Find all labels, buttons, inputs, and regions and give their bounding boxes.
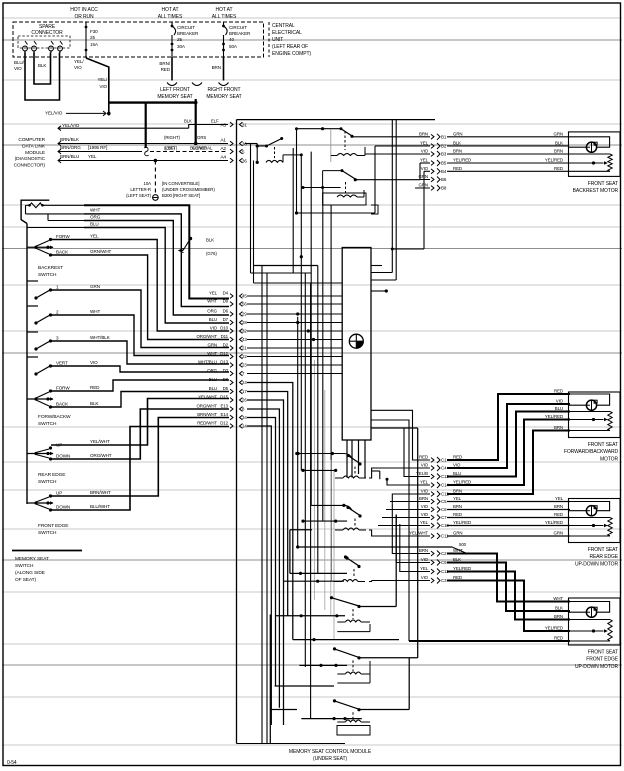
svg-text:BLK: BLK bbox=[555, 141, 563, 146]
switch pair UP/DOWN bbox=[27, 453, 53, 455]
svg-text:HOT IN ACC: HOT IN ACC bbox=[70, 7, 98, 13]
svg-text:MEMORY SEAT: MEMORY SEAT bbox=[206, 94, 241, 100]
bottom relay contact bbox=[330, 596, 333, 599]
svg-text:VIO: VIO bbox=[421, 463, 429, 468]
svg-text:FORW: FORW bbox=[56, 234, 70, 239]
svg-text:YEL: YEL bbox=[420, 480, 429, 485]
svg-text:YEL/VIO: YEL/VIO bbox=[45, 111, 63, 116]
svg-text:28: 28 bbox=[242, 320, 247, 325]
wire cascade rows down to bottom relays bbox=[247, 383, 293, 640]
svg-text:YEL/WHT: YEL/WHT bbox=[409, 531, 428, 536]
svg-text:D6: D6 bbox=[223, 309, 229, 314]
svg-text:D3: D3 bbox=[223, 368, 229, 373]
motor symbol bbox=[586, 506, 596, 516]
wire BRN breaker to right seat bbox=[223, 57, 225, 81]
svg-text:17: 17 bbox=[242, 389, 247, 394]
svg-text:MODULE: MODULE bbox=[25, 150, 45, 156]
central electrical unit dashed box bbox=[13, 22, 264, 57]
svg-text:YEL/RED: YEL/RED bbox=[545, 520, 563, 525]
svg-text:GRN: GRN bbox=[90, 284, 100, 289]
svg-text:B200 [RIGHT SEAT]: B200 [RIGHT SEAT] bbox=[162, 193, 200, 198]
svg-text:(ALONG SIDE: (ALONG SIDE bbox=[15, 570, 45, 576]
svg-text:BLU: BLU bbox=[555, 406, 563, 411]
10A circuit breaker dashed drop bbox=[154, 161, 156, 194]
svg-text:B5: B5 bbox=[441, 161, 447, 166]
switch pair FORW/BACK bbox=[27, 398, 53, 400]
wire right-side vertical 417.7 bbox=[417, 428, 419, 658]
svg-text:C4: C4 bbox=[441, 466, 447, 471]
connector break left seat bbox=[167, 83, 177, 86]
wire to pin B5 bbox=[420, 162, 430, 164]
svg-text:BLU: BLU bbox=[209, 317, 217, 322]
svg-text:BLU/VIO: BLU/VIO bbox=[190, 145, 207, 150]
svg-text:BRN: BRN bbox=[212, 65, 221, 70]
svg-text:COMPUTER: COMPUTER bbox=[18, 137, 45, 143]
svg-text:OR RUN: OR RUN bbox=[74, 14, 94, 20]
svg-text:CENTRAL: CENTRAL bbox=[272, 23, 295, 29]
svg-text:YEL: YEL bbox=[420, 520, 429, 525]
svg-text:BRN: BRN bbox=[554, 425, 563, 430]
wire wire to pin row 298.5 bbox=[84, 205, 229, 298]
relay K3 contact bbox=[341, 169, 344, 172]
svg-text:YEL/RED: YEL/RED bbox=[453, 158, 471, 163]
wire K2 to pin B1 bbox=[352, 136, 430, 138]
svg-text:C7: C7 bbox=[441, 515, 447, 520]
svg-text:BLU: BLU bbox=[209, 377, 217, 382]
CPU box bbox=[342, 248, 371, 441]
relay K1 contact bbox=[245, 143, 257, 145]
wire module internal verticals bbox=[250, 144, 252, 274]
svg-text:VIO: VIO bbox=[421, 575, 429, 580]
wire wire to pin row 306.5 bbox=[84, 214, 229, 307]
svg-text:HOT AT: HOT AT bbox=[216, 7, 233, 13]
wiper wire bbox=[569, 630, 604, 632]
svg-text:[IN CONVERTIBLE]: [IN CONVERTIBLE] bbox=[162, 181, 199, 186]
svg-text:BRN/WHT: BRN/WHT bbox=[197, 412, 217, 417]
wire row 581 bbox=[284, 580, 344, 582]
wire to C4 C13 bbox=[371, 420, 409, 641]
svg-text:YEL/WHT: YEL/WHT bbox=[198, 395, 217, 400]
svg-text:RED: RED bbox=[453, 512, 462, 517]
svg-text:14: 14 bbox=[242, 424, 247, 429]
svg-text:YEL/RED: YEL/RED bbox=[453, 520, 471, 525]
svg-text:BREAKER: BREAKER bbox=[229, 31, 251, 36]
wires motor M3 bbox=[447, 501, 570, 503]
svg-text:BREAKER: BREAKER bbox=[177, 31, 199, 36]
svg-text:RED: RED bbox=[453, 166, 462, 171]
svg-text:C3: C3 bbox=[441, 578, 447, 583]
relay K3 coil bbox=[345, 182, 347, 194]
svg-text:FRONT SEAT: FRONT SEAT bbox=[588, 650, 618, 656]
svg-text:RED: RED bbox=[554, 636, 563, 641]
wire B1 contact up bbox=[360, 606, 397, 608]
svg-text:LETTER-R: LETTER-R bbox=[130, 187, 151, 192]
svg-text:(UNDER CROSSMEMBER): (UNDER CROSSMEMBER) bbox=[162, 187, 215, 192]
svg-text:ELECTRICAL: ELECTRICAL bbox=[272, 30, 302, 36]
wire CPU to C1 bbox=[371, 410, 430, 460]
wire spare pin loops bbox=[34, 53, 51, 85]
svg-text:BRN/WHT: BRN/WHT bbox=[90, 490, 111, 495]
svg-text:YEL: YEL bbox=[420, 158, 429, 163]
relay B1 bracket bbox=[369, 624, 371, 632]
svg-text:BLU/: BLU/ bbox=[14, 60, 25, 65]
wire stub B6 bbox=[420, 179, 430, 181]
svg-text:BLK: BLK bbox=[90, 401, 99, 406]
svg-text:GRN: GRN bbox=[554, 131, 563, 136]
wire stub B8 bbox=[415, 187, 430, 189]
svg-text:FRONT SEAT: FRONT SEAT bbox=[588, 547, 618, 553]
relay K2 contact bbox=[321, 127, 324, 130]
svg-text:GRN: GRN bbox=[419, 174, 428, 179]
relay B3 coil box bbox=[337, 726, 370, 736]
svg-text:29: 29 bbox=[242, 312, 247, 317]
wire module internal rows bbox=[251, 272, 312, 274]
svg-text:WHT: WHT bbox=[90, 208, 100, 213]
wiper wire bbox=[569, 525, 604, 527]
svg-text:VIO: VIO bbox=[90, 360, 98, 365]
relay M-A bbox=[298, 453, 344, 455]
wire YEL/VIO from fuse bbox=[86, 58, 109, 116]
svg-text:(DIAGNOSTIC: (DIAGNOSTIC bbox=[15, 156, 46, 162]
svg-text:MEMORY SEAT CONTROL MODULE: MEMORY SEAT CONTROL MODULE bbox=[289, 749, 372, 755]
svg-text:WHT/BLK: WHT/BLK bbox=[90, 335, 111, 340]
svg-text:BACK: BACK bbox=[56, 402, 69, 407]
wires motor M4 cascade bbox=[447, 554, 570, 602]
wire RED to motor M4 bbox=[409, 640, 570, 642]
wire wire to pin row 323 bbox=[84, 228, 229, 324]
wire to pin B3 bbox=[365, 153, 430, 155]
wires CPU bottom bundle bbox=[346, 440, 348, 478]
central electrical unit label bbox=[268, 22, 270, 57]
node junction YEL/VIO bbox=[107, 112, 111, 116]
svg-text:GRN: GRN bbox=[208, 343, 217, 348]
svg-text:SWITCH: SWITCH bbox=[38, 530, 57, 536]
svg-text:BLU: BLU bbox=[209, 386, 217, 391]
bottom relay contact bbox=[333, 699, 336, 702]
svg-text:GRN: GRN bbox=[554, 531, 563, 536]
svg-text:GRN: GRN bbox=[453, 131, 462, 136]
svg-text:C6: C6 bbox=[441, 507, 447, 512]
svg-text:RIGHT FRONT: RIGHT FRONT bbox=[208, 87, 241, 93]
svg-text:CIRCUIT: CIRCUIT bbox=[229, 25, 247, 30]
svg-text:FRONT EDGE: FRONT EDGE bbox=[38, 523, 68, 529]
svg-text:RED: RED bbox=[453, 575, 462, 580]
wire motor top loop bbox=[569, 137, 610, 147]
svg-text:YEL/RED: YEL/RED bbox=[453, 480, 471, 485]
svg-text:BLK: BLK bbox=[38, 63, 47, 68]
wire BRN/BLK to pin A1 bbox=[58, 141, 61, 146]
bottom relay coil bbox=[352, 660, 354, 671]
svg-text:(LEFT SEAT): (LEFT SEAT) bbox=[126, 193, 151, 198]
relay contact bbox=[346, 454, 349, 457]
ground reference arrow bbox=[189, 237, 192, 240]
svg-text:VIO: VIO bbox=[14, 66, 22, 71]
svg-text:ORG: ORG bbox=[207, 368, 217, 373]
svg-text:D2: D2 bbox=[223, 343, 229, 348]
svg-text:WHT: WHT bbox=[453, 548, 463, 553]
svg-text:D12: D12 bbox=[220, 351, 228, 356]
svg-text:OF SEAT): OF SEAT) bbox=[15, 577, 36, 583]
module pin 30 bbox=[240, 141, 243, 146]
svg-text:DOWN: DOWN bbox=[56, 505, 70, 510]
svg-text:MEMORY SEAT: MEMORY SEAT bbox=[15, 556, 49, 562]
svg-text:RED/WHT: RED/WHT bbox=[197, 421, 217, 426]
svg-text:BRN: BRN bbox=[554, 149, 563, 154]
motor symbol bbox=[586, 400, 596, 410]
bottom relay coil bbox=[352, 609, 354, 619]
scan fold lines bbox=[2, 17, 622, 19]
wire motor second bbox=[569, 611, 587, 613]
wire module internal gray verticals bbox=[313, 360, 315, 600]
svg-text:FRONT SEAT: FRONT SEAT bbox=[588, 442, 618, 448]
svg-text:BLK: BLK bbox=[206, 238, 214, 243]
switch pair FORW/BACK bbox=[27, 246, 53, 248]
svg-text:36: 36 bbox=[242, 159, 247, 164]
svg-text:HOT AT: HOT AT bbox=[162, 7, 179, 13]
motor box FRONT SEAT MOTOR bbox=[569, 392, 621, 438]
svg-text:WHT: WHT bbox=[553, 596, 563, 601]
module pin 5 bbox=[240, 149, 243, 154]
svg-text:YEL/RED: YEL/RED bbox=[453, 566, 471, 571]
wire B3 contact up to B2 row bbox=[360, 709, 410, 711]
wires to C5-C11 straight bbox=[390, 501, 430, 503]
svg-text:BRN: BRN bbox=[554, 504, 563, 509]
svg-text:32: 32 bbox=[242, 329, 247, 334]
connector break right seat bbox=[219, 83, 229, 86]
svg-text:C9: C9 bbox=[441, 560, 447, 565]
svg-text:BLK: BLK bbox=[184, 119, 192, 124]
svg-text:31: 31 bbox=[242, 123, 247, 128]
wire BRN/RED breaker to left seat bbox=[171, 57, 173, 81]
svg-text:RED: RED bbox=[419, 455, 428, 460]
svg-text:A4: A4 bbox=[220, 155, 226, 161]
svg-text:BRN: BRN bbox=[453, 149, 462, 154]
svg-text:(RIGHT): (RIGHT) bbox=[164, 135, 181, 140]
svg-text:ORG: ORG bbox=[207, 309, 217, 314]
svg-text:YEL/VIO: YEL/VIO bbox=[62, 123, 80, 128]
svg-text:ORG/WHT: ORG/WHT bbox=[196, 334, 217, 339]
svg-text:BLU: BLU bbox=[90, 222, 99, 227]
svg-text:F30: F30 bbox=[90, 29, 98, 34]
relay K2 coil bbox=[344, 131, 346, 150]
svg-text:YEL: YEL bbox=[90, 234, 99, 239]
switch VERT bbox=[27, 356, 38, 358]
relay M-B bbox=[344, 505, 352, 510]
svg-text:VIO: VIO bbox=[421, 149, 429, 154]
svg-text:VIO: VIO bbox=[453, 463, 461, 468]
svg-text:GRN/WHT: GRN/WHT bbox=[90, 249, 112, 254]
module pin 36 bbox=[240, 158, 243, 163]
memory seat switch assembly bottom line bbox=[12, 550, 82, 552]
relay K3 coil box bbox=[323, 193, 366, 205]
svg-text:WHT: WHT bbox=[207, 351, 217, 356]
wire to C12 bbox=[392, 494, 430, 504]
wire WHT row bbox=[84, 204, 189, 206]
position sensor zigzag bbox=[569, 517, 611, 519]
svg-text:45: 45 bbox=[242, 294, 247, 299]
switch pair UP/DOWN bbox=[27, 502, 53, 504]
svg-text:21: 21 bbox=[242, 346, 247, 351]
svg-text:BRN/BLU: BRN/BLU bbox=[60, 154, 79, 159]
svg-text:BRN/BLK: BRN/BLK bbox=[60, 137, 80, 142]
svg-text:UP-DOWN MOTOR: UP-DOWN MOTOR bbox=[575, 664, 619, 670]
switch 1 bbox=[27, 280, 38, 282]
svg-text:VIO: VIO bbox=[421, 512, 429, 517]
svg-text:RED: RED bbox=[90, 385, 100, 390]
relay M-C bbox=[344, 555, 347, 558]
memory seat control module box bbox=[237, 119, 436, 121]
svg-text:VIO: VIO bbox=[421, 489, 429, 494]
wire motor top loop bbox=[569, 502, 610, 511]
svg-text:SWITCH: SWITCH bbox=[38, 479, 57, 485]
svg-text:D8: D8 bbox=[223, 377, 229, 382]
svg-text:25: 25 bbox=[177, 37, 182, 42]
svg-text:VIO: VIO bbox=[421, 557, 429, 562]
svg-text:24: 24 bbox=[242, 380, 247, 385]
svg-text:MEMORY SEAT: MEMORY SEAT bbox=[157, 94, 192, 100]
svg-text:BLU/WHT: BLU/WHT bbox=[90, 504, 110, 509]
svg-text:VIO: VIO bbox=[99, 84, 107, 89]
motor symbol bbox=[586, 142, 596, 152]
svg-text:VIO: VIO bbox=[74, 65, 82, 70]
wire motor top loop bbox=[569, 602, 610, 613]
wires feeding C group 2 bbox=[392, 504, 430, 554]
svg-text:(G76): (G76) bbox=[206, 251, 217, 256]
svg-text:BRN: BRN bbox=[419, 548, 428, 553]
module pin 31 bbox=[240, 122, 243, 127]
svg-text:500: 500 bbox=[459, 542, 467, 547]
svg-text:A1: A1 bbox=[220, 138, 226, 144]
svg-text:C1: C1 bbox=[441, 458, 447, 463]
svg-text:FRONT EDGE: FRONT EDGE bbox=[586, 657, 618, 663]
svg-text:YEL/: YEL/ bbox=[74, 59, 84, 64]
bottom relay coil bbox=[352, 712, 354, 719]
svg-text:RED: RED bbox=[161, 67, 171, 72]
svg-text:23: 23 bbox=[242, 363, 247, 368]
svg-text:YEL: YEL bbox=[88, 154, 97, 159]
svg-text:C2: C2 bbox=[441, 551, 447, 556]
svg-text:DOWN: DOWN bbox=[56, 454, 70, 459]
svg-text:ENGINE COMPT): ENGINE COMPT) bbox=[272, 51, 311, 57]
svg-text:B8: B8 bbox=[441, 186, 447, 191]
svg-text:GRN: GRN bbox=[453, 531, 462, 536]
svg-text:FORWARD/BACKWARD: FORWARD/BACKWARD bbox=[564, 449, 619, 455]
svg-text:RED: RED bbox=[453, 455, 462, 460]
svg-text:GRN: GRN bbox=[419, 183, 428, 188]
svg-text:B3: B3 bbox=[441, 152, 447, 157]
svg-text:30A: 30A bbox=[177, 44, 186, 49]
svg-text:VERT: VERT bbox=[56, 361, 68, 366]
wire to pin B2 bbox=[375, 145, 430, 147]
wire motor second bbox=[569, 404, 587, 406]
svg-text:VIO: VIO bbox=[421, 504, 429, 509]
relay B2 bracket bbox=[369, 661, 371, 683]
svg-text:FRONT SEAT: FRONT SEAT bbox=[588, 181, 618, 187]
svg-text:BRN/ORG: BRN/ORG bbox=[60, 145, 81, 150]
svg-text:FORW: FORW bbox=[56, 386, 70, 391]
position sensor zigzag bbox=[569, 411, 611, 413]
wiper wire bbox=[569, 162, 604, 164]
wires motor M2 cascade bbox=[447, 394, 570, 460]
svg-text:ALL TIMES: ALL TIMES bbox=[212, 14, 237, 20]
wire bottom connections bbox=[275, 685, 334, 687]
svg-text:D7: D7 bbox=[223, 317, 229, 322]
spare connector pins bbox=[25, 41, 28, 45]
svg-text:D13: D13 bbox=[220, 360, 228, 365]
svg-text:B4: B4 bbox=[441, 169, 447, 174]
motor M1 wires bbox=[447, 136, 569, 138]
svg-text:YEL: YEL bbox=[420, 141, 429, 146]
svg-text:BLK: BLK bbox=[555, 606, 563, 611]
svg-text:BLK: BLK bbox=[453, 557, 461, 562]
svg-text:A2: A2 bbox=[220, 146, 226, 152]
svg-text:YEL/RED: YEL/RED bbox=[545, 626, 563, 631]
svg-text:YEL: YEL bbox=[555, 496, 564, 501]
CPU symbol circle bbox=[349, 334, 363, 348]
wire motor second bbox=[569, 146, 587, 148]
svg-text:BACKREST MOTOR: BACKREST MOTOR bbox=[573, 188, 619, 194]
svg-text:D10: D10 bbox=[220, 326, 228, 331]
svg-text:WHT/BLU: WHT/BLU bbox=[198, 360, 217, 365]
svg-text:[1995 RF]: [1995 RF] bbox=[88, 145, 107, 150]
svg-text:50A: 50A bbox=[229, 44, 238, 49]
svg-text:E13: E13 bbox=[220, 404, 228, 409]
svg-text:MOTOR: MOTOR bbox=[600, 456, 619, 462]
relay contact bbox=[345, 556, 348, 559]
svg-text:BRN/: BRN/ bbox=[159, 61, 170, 66]
svg-text:REAR EDGE: REAR EDGE bbox=[589, 554, 618, 560]
motor symbol bbox=[586, 607, 596, 617]
svg-text:BRN: BRN bbox=[453, 504, 462, 509]
svg-text:YEL/: YEL/ bbox=[97, 77, 107, 82]
svg-text:GRS: GRS bbox=[197, 135, 206, 140]
fuse F30 15A bbox=[85, 22, 87, 26]
svg-text:15A: 15A bbox=[90, 42, 99, 47]
svg-text:BACK: BACK bbox=[56, 250, 69, 255]
motor box FRONT SEAT UP-DOWN MOTOR bbox=[569, 499, 621, 543]
svg-text:YEL: YEL bbox=[420, 566, 429, 571]
svg-text:56: 56 bbox=[242, 302, 247, 307]
wire BRN/ORG dashed to pin A2 bbox=[58, 149, 61, 154]
wire BRN/BLU to pin A4 bbox=[58, 158, 61, 163]
svg-text:(UNDER SEAT): (UNDER SEAT) bbox=[313, 756, 347, 762]
svg-text:BLU: BLU bbox=[453, 471, 461, 476]
relay coil bbox=[354, 467, 356, 475]
position sensor zigzag bbox=[569, 619, 611, 621]
wire rows D-pins into CPU bbox=[247, 295, 342, 297]
svg-text:ORG/WHT: ORG/WHT bbox=[196, 404, 217, 409]
svg-text:YEL: YEL bbox=[209, 291, 218, 296]
svg-text:YEL: YEL bbox=[453, 496, 462, 501]
svg-text:D11: D11 bbox=[221, 334, 229, 339]
wire verticals from module top bbox=[391, 120, 393, 273]
svg-text:VIO: VIO bbox=[556, 399, 564, 404]
svg-text:22: 22 bbox=[242, 354, 247, 359]
svg-text:BRN: BRN bbox=[453, 489, 462, 494]
svg-text:WHT: WHT bbox=[90, 309, 100, 314]
motor box FRONT SEAT UP-DOWN MOTOR bbox=[569, 598, 621, 645]
svg-text:B1: B1 bbox=[441, 134, 447, 139]
svg-text:A3: A3 bbox=[220, 123, 226, 129]
svg-text:CONNECTOR): CONNECTOR) bbox=[14, 163, 46, 169]
wire to pin B4 bbox=[424, 170, 430, 172]
memory seat switch resistor bbox=[21, 200, 49, 223]
wire motor top loop bbox=[569, 394, 610, 405]
wiper wire bbox=[569, 419, 604, 421]
motor box FRONT SEAT BACKREST MOTOR bbox=[569, 132, 621, 177]
svg-text:FORW/BACKW: FORW/BACKW bbox=[38, 414, 71, 420]
svg-text:BRN: BRN bbox=[419, 496, 428, 501]
